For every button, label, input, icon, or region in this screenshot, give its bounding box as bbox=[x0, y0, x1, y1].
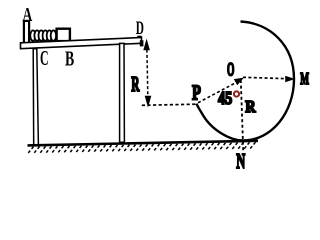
svg-text:R: R bbox=[245, 97, 256, 116]
left table leg bbox=[33, 49, 38, 146]
svg-text:B: B bbox=[65, 46, 74, 70]
tabletop end cap (dark end at D) bbox=[140, 40, 144, 46]
dashed radius line O to P with arrowhead at O bbox=[198, 82, 238, 103]
svg-text:R: R bbox=[131, 72, 140, 96]
svg-text:P: P bbox=[192, 80, 201, 104]
vertical dashed line O to N bbox=[241, 80, 244, 153]
arrowhead at O end of OP line bbox=[235, 79, 241, 84]
svg-text:C: C bbox=[40, 46, 49, 70]
spring coils bbox=[30, 30, 56, 40]
dashed radius line O to M bbox=[243, 77, 288, 78]
degree symbol (dark red) bbox=[234, 91, 239, 96]
wall post anchoring spring bbox=[24, 21, 29, 44]
svg-text:N: N bbox=[236, 149, 245, 173]
circular track (arc from top clockwise to P) bbox=[197, 22, 295, 141]
small dash below D bbox=[137, 36, 141, 38]
tabletop bbox=[21, 38, 142, 49]
right table leg bbox=[120, 43, 125, 142]
arrowhead at M (pointing right into circle) bbox=[286, 77, 292, 81]
ground line bbox=[28, 141, 259, 146]
arrowhead down (bottom of R dimension) bbox=[146, 97, 150, 104]
horizontal dashed line from below D to P bbox=[142, 104, 196, 105]
arrowhead up (top of R dimension) bbox=[145, 42, 149, 49]
vertical dimension line R (dashed, double arrow) bbox=[147, 45, 148, 101]
svg-text:45: 45 bbox=[218, 88, 232, 108]
svg-text:M: M bbox=[300, 69, 309, 88]
svg-text:D: D bbox=[136, 18, 144, 39]
block B on table bbox=[57, 29, 70, 41]
ground hatching bbox=[27, 22, 309, 174]
svg-text:O: O bbox=[227, 60, 234, 81]
